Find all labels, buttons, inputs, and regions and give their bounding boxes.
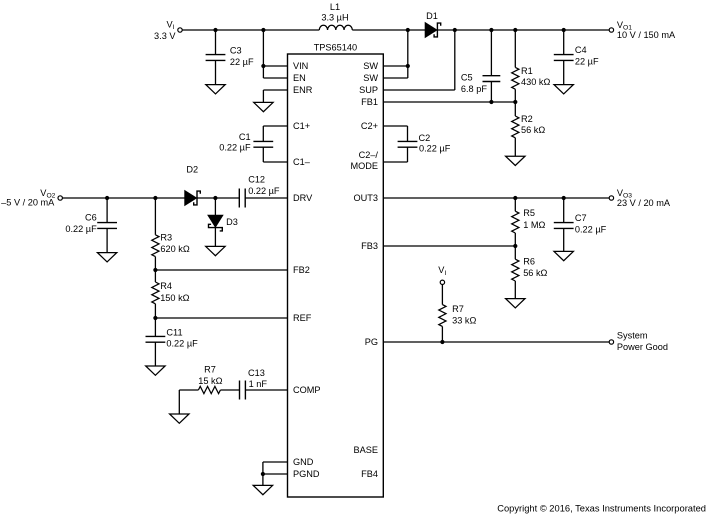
svg-text:15 kΩ: 15 kΩ [198, 376, 222, 386]
svg-text:C6: C6 [85, 213, 97, 223]
svg-text:MODE: MODE [350, 161, 378, 171]
svg-text:D2: D2 [186, 165, 198, 175]
svg-text:Power Good: Power Good [617, 342, 668, 352]
svg-text:TPS65140: TPS65140 [314, 43, 357, 53]
svg-text:33 kΩ: 33 kΩ [452, 316, 476, 326]
svg-text:GND: GND [293, 457, 314, 467]
svg-text:ENR: ENR [293, 85, 313, 95]
svg-text:R2: R2 [521, 114, 533, 124]
svg-text:C1: C1 [239, 132, 251, 142]
svg-text:FB1: FB1 [361, 97, 378, 107]
svg-text:C11: C11 [166, 328, 182, 338]
svg-text:R1: R1 [521, 66, 533, 76]
svg-text:150 kΩ: 150 kΩ [160, 293, 189, 303]
svg-text:22 µF: 22 µF [230, 57, 254, 67]
svg-text:23 V / 20 mA: 23 V / 20 mA [617, 198, 671, 208]
svg-text:FB3: FB3 [361, 241, 378, 251]
svg-text:C2+: C2+ [361, 121, 378, 131]
svg-text:SW: SW [363, 73, 378, 83]
svg-text:C2: C2 [419, 133, 431, 143]
svg-text:D1: D1 [426, 11, 438, 21]
svg-text:–5 V / 20 mA: –5 V / 20 mA [1, 198, 55, 208]
svg-text:C13: C13 [248, 368, 265, 378]
svg-text:R3: R3 [160, 233, 172, 243]
svg-text:COMP: COMP [293, 385, 321, 395]
svg-text:R4: R4 [160, 281, 172, 291]
svg-text:EN: EN [293, 73, 306, 83]
svg-text:FB4: FB4 [361, 469, 378, 479]
svg-text:3.3 µH: 3.3 µH [321, 13, 348, 23]
svg-text:C5: C5 [461, 73, 473, 83]
svg-text:R5: R5 [523, 208, 535, 218]
svg-text:0.22 µF: 0.22 µF [65, 224, 97, 234]
svg-text:SUP: SUP [359, 85, 378, 95]
svg-text:3.3 V: 3.3 V [154, 31, 176, 41]
svg-text:VIN: VIN [293, 61, 308, 71]
svg-text:C12: C12 [248, 174, 265, 184]
svg-text:0.22 µF: 0.22 µF [219, 143, 251, 153]
svg-text:430 kΩ: 430 kΩ [521, 77, 550, 87]
svg-text:C3: C3 [230, 45, 242, 55]
svg-text:SW: SW [363, 61, 378, 71]
svg-text:System: System [617, 330, 648, 340]
svg-text:56 kΩ: 56 kΩ [523, 268, 547, 278]
svg-text:10 V / 150 mA: 10 V / 150 mA [617, 30, 676, 40]
svg-text:1 MΩ: 1 MΩ [523, 220, 545, 230]
svg-text:C7: C7 [575, 213, 587, 223]
svg-text:C4: C4 [575, 45, 587, 55]
svg-text:PGND: PGND [293, 469, 320, 479]
svg-text:0.22 µF: 0.22 µF [248, 186, 280, 196]
svg-text:C1+: C1+ [293, 121, 310, 131]
svg-text:6.8 pF: 6.8 pF [461, 84, 487, 94]
svg-text:56 kΩ: 56 kΩ [521, 125, 545, 135]
svg-text:C2–/: C2–/ [359, 150, 379, 160]
svg-text:Copyright © 2016, Texas Instru: Copyright © 2016, Texas Instruments Inco… [497, 503, 706, 513]
svg-text:DRV: DRV [293, 193, 313, 203]
svg-text:OUT3: OUT3 [353, 193, 378, 203]
svg-text:D3: D3 [226, 217, 238, 227]
svg-text:REF: REF [293, 313, 312, 323]
svg-text:0.22 µF: 0.22 µF [166, 338, 198, 348]
svg-text:C1–: C1– [293, 157, 311, 167]
svg-text:620 kΩ: 620 kΩ [160, 244, 189, 254]
svg-text:0.22 µF: 0.22 µF [419, 143, 451, 153]
svg-text:FB2: FB2 [293, 265, 310, 275]
svg-text:0.22 µF: 0.22 µF [575, 224, 607, 234]
svg-text:22 µF: 22 µF [575, 57, 599, 67]
svg-text:R7: R7 [204, 364, 216, 374]
svg-text:R7: R7 [452, 304, 464, 314]
svg-text:BASE: BASE [353, 445, 378, 455]
svg-text:R6: R6 [523, 256, 535, 266]
svg-text:1 nF: 1 nF [249, 379, 268, 389]
svg-text:PG: PG [365, 337, 378, 347]
svg-text:L1: L1 [330, 2, 340, 12]
